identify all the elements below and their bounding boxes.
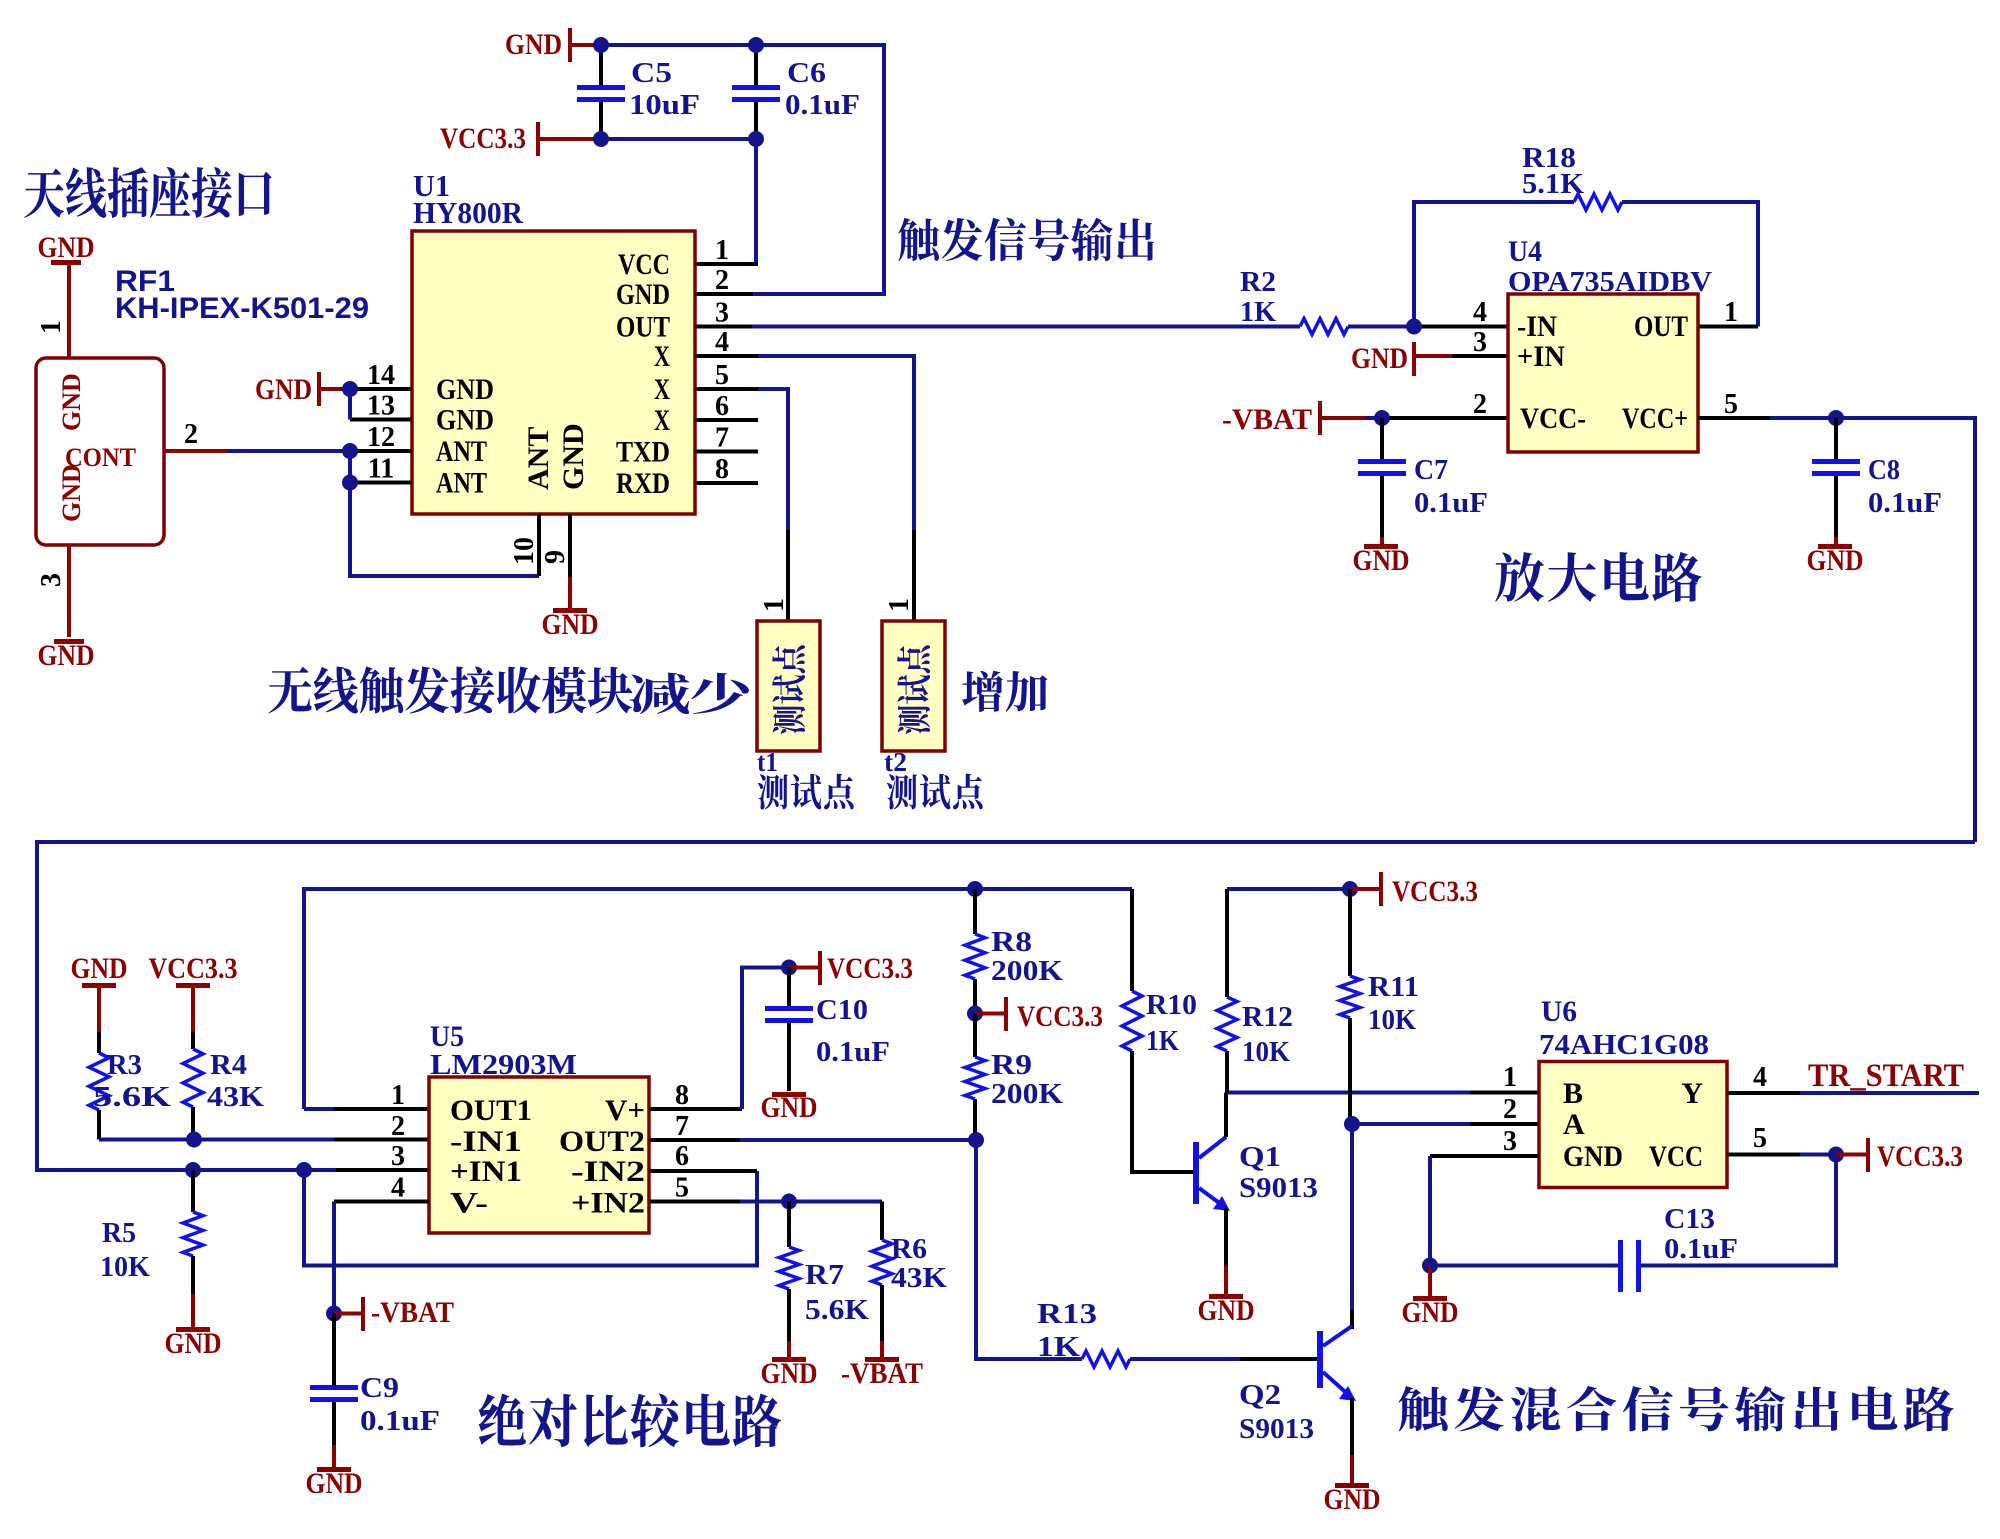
svg-text:TR_START: TR_START	[1808, 1058, 1964, 1094]
svg-text:0.1uF: 0.1uF	[1664, 1234, 1738, 1265]
svg-text:R6: R6	[891, 1234, 927, 1265]
svg-text:8: 8	[675, 1080, 689, 1111]
svg-text:43K: 43K	[891, 1263, 947, 1294]
svg-text:VCC3.3: VCC3.3	[827, 952, 913, 985]
svg-text:GND: GND	[38, 639, 95, 672]
svg-text:3: 3	[1503, 1126, 1517, 1157]
svg-text:3: 3	[36, 573, 67, 587]
svg-text:GND: GND	[38, 231, 95, 264]
svg-text:VCC3.3: VCC3.3	[440, 122, 526, 155]
svg-text:GND: GND	[436, 404, 494, 437]
svg-text:U5: U5	[430, 1020, 464, 1053]
svg-text:ANT: ANT	[436, 435, 487, 468]
svg-text:4: 4	[1473, 297, 1487, 328]
svg-text:4: 4	[715, 327, 729, 358]
svg-text:OUT: OUT	[616, 311, 670, 344]
svg-text:OUT2: OUT2	[559, 1125, 645, 1158]
svg-text:C7: C7	[1414, 455, 1448, 486]
svg-text:-IN2: -IN2	[571, 1155, 645, 1188]
svg-text:-VBAT: -VBAT	[1222, 403, 1312, 436]
svg-text:X: X	[654, 404, 670, 437]
svg-text:X: X	[654, 340, 670, 373]
svg-text:S9013: S9013	[1239, 1414, 1314, 1445]
svg-text:74AHC1G08: 74AHC1G08	[1539, 1030, 1709, 1061]
svg-text:B: B	[1563, 1077, 1583, 1110]
svg-text:ANT: ANT	[436, 467, 487, 500]
svg-text:1: 1	[715, 235, 729, 266]
svg-text:R8: R8	[991, 927, 1032, 958]
svg-text:VCC3.3: VCC3.3	[1017, 1000, 1103, 1033]
svg-text:-VBAT: -VBAT	[841, 1357, 923, 1390]
svg-text:OUT: OUT	[1634, 310, 1688, 343]
svg-text:-VBAT: -VBAT	[371, 1296, 454, 1329]
svg-text:10K: 10K	[1242, 1037, 1290, 1068]
svg-text:RXD: RXD	[616, 467, 670, 500]
svg-text:GND: GND	[1807, 544, 1864, 577]
svg-text:GND: GND	[1402, 1296, 1459, 1329]
svg-text:t1: t1	[757, 747, 778, 777]
svg-text:R13: R13	[1037, 1299, 1097, 1330]
svg-text:ANT: ANT	[522, 427, 555, 490]
svg-text:KH-IPEX-K501-29: KH-IPEX-K501-29	[115, 292, 369, 325]
svg-text:6: 6	[715, 391, 729, 422]
svg-text:GND: GND	[1351, 342, 1408, 375]
svg-text:LM2903M: LM2903M	[430, 1050, 577, 1081]
svg-text:Y: Y	[1681, 1077, 1703, 1110]
svg-text:R12: R12	[1242, 1002, 1293, 1033]
svg-text:1: 1	[391, 1080, 405, 1111]
svg-text:HY800R: HY800R	[413, 195, 524, 230]
svg-text:1K: 1K	[1037, 1332, 1080, 1363]
svg-text:200K: 200K	[991, 956, 1063, 987]
svg-text:R4: R4	[210, 1050, 247, 1081]
svg-text:VCC: VCC	[618, 248, 670, 281]
svg-text:2: 2	[1473, 389, 1487, 420]
svg-text:TXD: TXD	[616, 436, 670, 469]
svg-text:GND: GND	[557, 423, 590, 490]
svg-text:1: 1	[1724, 297, 1738, 328]
svg-text:200K: 200K	[991, 1079, 1063, 1110]
svg-text:1: 1	[759, 598, 790, 612]
svg-text:VCC3.3: VCC3.3	[1877, 1140, 1963, 1173]
svg-text:5: 5	[1724, 389, 1738, 420]
svg-text:VCC+: VCC+	[1622, 402, 1688, 435]
svg-text:1: 1	[36, 320, 67, 334]
svg-text:6: 6	[675, 1141, 689, 1172]
svg-text:OUT1: OUT1	[450, 1094, 532, 1127]
svg-text:GND: GND	[165, 1327, 222, 1360]
svg-text:7: 7	[675, 1111, 689, 1142]
svg-text:GND: GND	[71, 952, 128, 985]
svg-text:0.1uF: 0.1uF	[1868, 488, 1942, 519]
svg-text:VCC-: VCC-	[1520, 402, 1586, 435]
svg-text:0.1uF: 0.1uF	[1414, 488, 1488, 519]
svg-text:GND: GND	[57, 464, 86, 522]
svg-text:U6: U6	[1541, 995, 1577, 1028]
svg-text:0.1uF: 0.1uF	[816, 1037, 890, 1068]
svg-text:1: 1	[1503, 1062, 1517, 1093]
svg-text:10uF: 10uF	[629, 90, 700, 121]
svg-text:R9: R9	[991, 1050, 1032, 1081]
svg-text:4: 4	[1753, 1062, 1767, 1093]
svg-text:GND: GND	[761, 1091, 818, 1124]
svg-text:10K: 10K	[1368, 1005, 1416, 1036]
svg-text:V+: V+	[605, 1094, 645, 1127]
svg-text:GND: GND	[255, 373, 312, 406]
svg-text:X: X	[654, 373, 670, 406]
svg-text:+IN1: +IN1	[450, 1155, 522, 1188]
svg-text:+IN2: +IN2	[571, 1187, 645, 1220]
svg-text:14: 14	[367, 360, 395, 391]
svg-text:Q2: Q2	[1239, 1380, 1281, 1411]
svg-text:OPA735AIDBV: OPA735AIDBV	[1508, 267, 1712, 298]
svg-text:VCC3.3: VCC3.3	[1392, 875, 1478, 908]
svg-text:0.1uF: 0.1uF	[360, 1406, 440, 1437]
svg-text:U4: U4	[1508, 235, 1542, 268]
svg-text:GND: GND	[505, 28, 562, 61]
svg-text:9: 9	[540, 550, 571, 564]
svg-text:GND: GND	[542, 608, 599, 641]
svg-text:R11: R11	[1368, 972, 1419, 1003]
svg-text:43K: 43K	[207, 1082, 264, 1113]
svg-text:5: 5	[675, 1173, 689, 1204]
svg-text:C9: C9	[360, 1373, 399, 1404]
svg-text:2: 2	[391, 1111, 405, 1142]
svg-text:12: 12	[367, 422, 395, 453]
svg-text:1K: 1K	[1146, 1026, 1179, 1057]
svg-text:R2: R2	[1240, 267, 1276, 298]
svg-text:0.1uF: 0.1uF	[785, 90, 860, 121]
svg-text:3: 3	[391, 1141, 405, 1172]
svg-text:4: 4	[391, 1173, 405, 1204]
svg-text:C10: C10	[816, 995, 868, 1026]
svg-text:GND: GND	[306, 1467, 363, 1500]
svg-text:C5: C5	[631, 58, 672, 89]
svg-text:t2: t2	[884, 747, 907, 777]
svg-text:GND: GND	[57, 373, 86, 431]
svg-text:C6: C6	[787, 58, 826, 89]
svg-text:-IN1: -IN1	[450, 1125, 522, 1158]
svg-text:GND: GND	[616, 278, 670, 311]
svg-text:S9013: S9013	[1239, 1173, 1318, 1204]
svg-text:5: 5	[715, 360, 729, 391]
svg-text:GND: GND	[436, 373, 494, 406]
svg-text:1K: 1K	[1240, 297, 1276, 328]
svg-text:3: 3	[1473, 327, 1487, 358]
svg-text:R7: R7	[805, 1260, 844, 1291]
svg-text:+IN: +IN	[1517, 340, 1565, 373]
svg-text:GND: GND	[1324, 1483, 1381, 1516]
svg-text:VCC: VCC	[1649, 1140, 1703, 1173]
svg-text:8: 8	[715, 454, 729, 485]
svg-text:Q1: Q1	[1239, 1142, 1281, 1173]
svg-text:R5: R5	[102, 1218, 136, 1249]
svg-text:2: 2	[184, 419, 198, 450]
svg-text:5: 5	[1753, 1123, 1767, 1154]
svg-text:2: 2	[715, 265, 729, 296]
svg-text:-IN: -IN	[1517, 310, 1557, 343]
svg-text:GND: GND	[1563, 1140, 1623, 1173]
svg-text:10: 10	[509, 537, 540, 565]
svg-text:A: A	[1563, 1108, 1585, 1141]
svg-text:1: 1	[884, 598, 915, 612]
svg-text:11: 11	[368, 454, 394, 485]
svg-text:GND: GND	[761, 1357, 818, 1390]
svg-text:R10: R10	[1146, 990, 1197, 1021]
svg-text:2: 2	[1503, 1094, 1517, 1125]
svg-text:5.1K: 5.1K	[1522, 169, 1584, 200]
svg-text:3: 3	[715, 298, 729, 329]
svg-text:13: 13	[367, 391, 395, 422]
svg-text:C13: C13	[1664, 1204, 1715, 1235]
svg-text:C8: C8	[1868, 455, 1900, 486]
svg-text:V-: V-	[450, 1187, 488, 1220]
svg-text:5.6K: 5.6K	[93, 1082, 171, 1113]
svg-text:5.6K: 5.6K	[805, 1295, 869, 1326]
svg-text:R3: R3	[107, 1050, 142, 1081]
svg-text:10K: 10K	[100, 1252, 150, 1283]
svg-text:GND: GND	[1198, 1294, 1255, 1327]
svg-text:GND: GND	[1353, 544, 1410, 577]
svg-text:VCC3.3: VCC3.3	[149, 952, 238, 985]
svg-text:7: 7	[715, 423, 729, 454]
